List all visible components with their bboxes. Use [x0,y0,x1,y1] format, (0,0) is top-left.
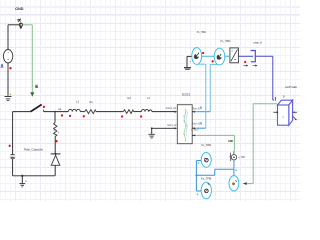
svg-text:GND: GND [15,7,24,11]
svg-text:Ps_TRB1: Ps_TRB1 [197,30,207,34]
svg-text:Ps_TRB2: Ps_TRB2 [221,39,231,43]
svg-text:Curent_In2: Curent_In2 [167,123,176,127]
svg-text:E: E [35,84,38,89]
svg-text:L2: L2 [76,100,80,104]
svg-text:sofTrak: sofTrak [285,85,298,89]
svg-text:Rotor_V2: Rotor_V2 [192,122,200,126]
svg-text:Polar_Capacitor: Polar_Capacitor [24,147,44,151]
svg-text:A1: A1 [58,108,62,111]
svg-text:B: B [283,96,285,99]
svg-text:Sv_TRB: Sv_TRB [201,177,212,181]
svg-text:amp_fr: amp_fr [253,40,262,44]
svg-text:Rotor_V1: Rotor_V1 [193,106,200,110]
svg-text:ECE1: ECE1 [182,93,191,97]
svg-text:a_TRB: a_TRB [238,155,245,159]
svg-text:R1: R1 [89,100,93,104]
svg-text:Curent_In1: Curent_In1 [166,106,177,110]
svg-text:L1: L1 [147,96,151,100]
svg-text:Vo_TRB: Vo_TRB [201,143,211,147]
svg-text:GND: GND [228,139,234,143]
svg-text:R2: R2 [127,96,131,100]
svg-text:1: 1 [273,99,275,102]
